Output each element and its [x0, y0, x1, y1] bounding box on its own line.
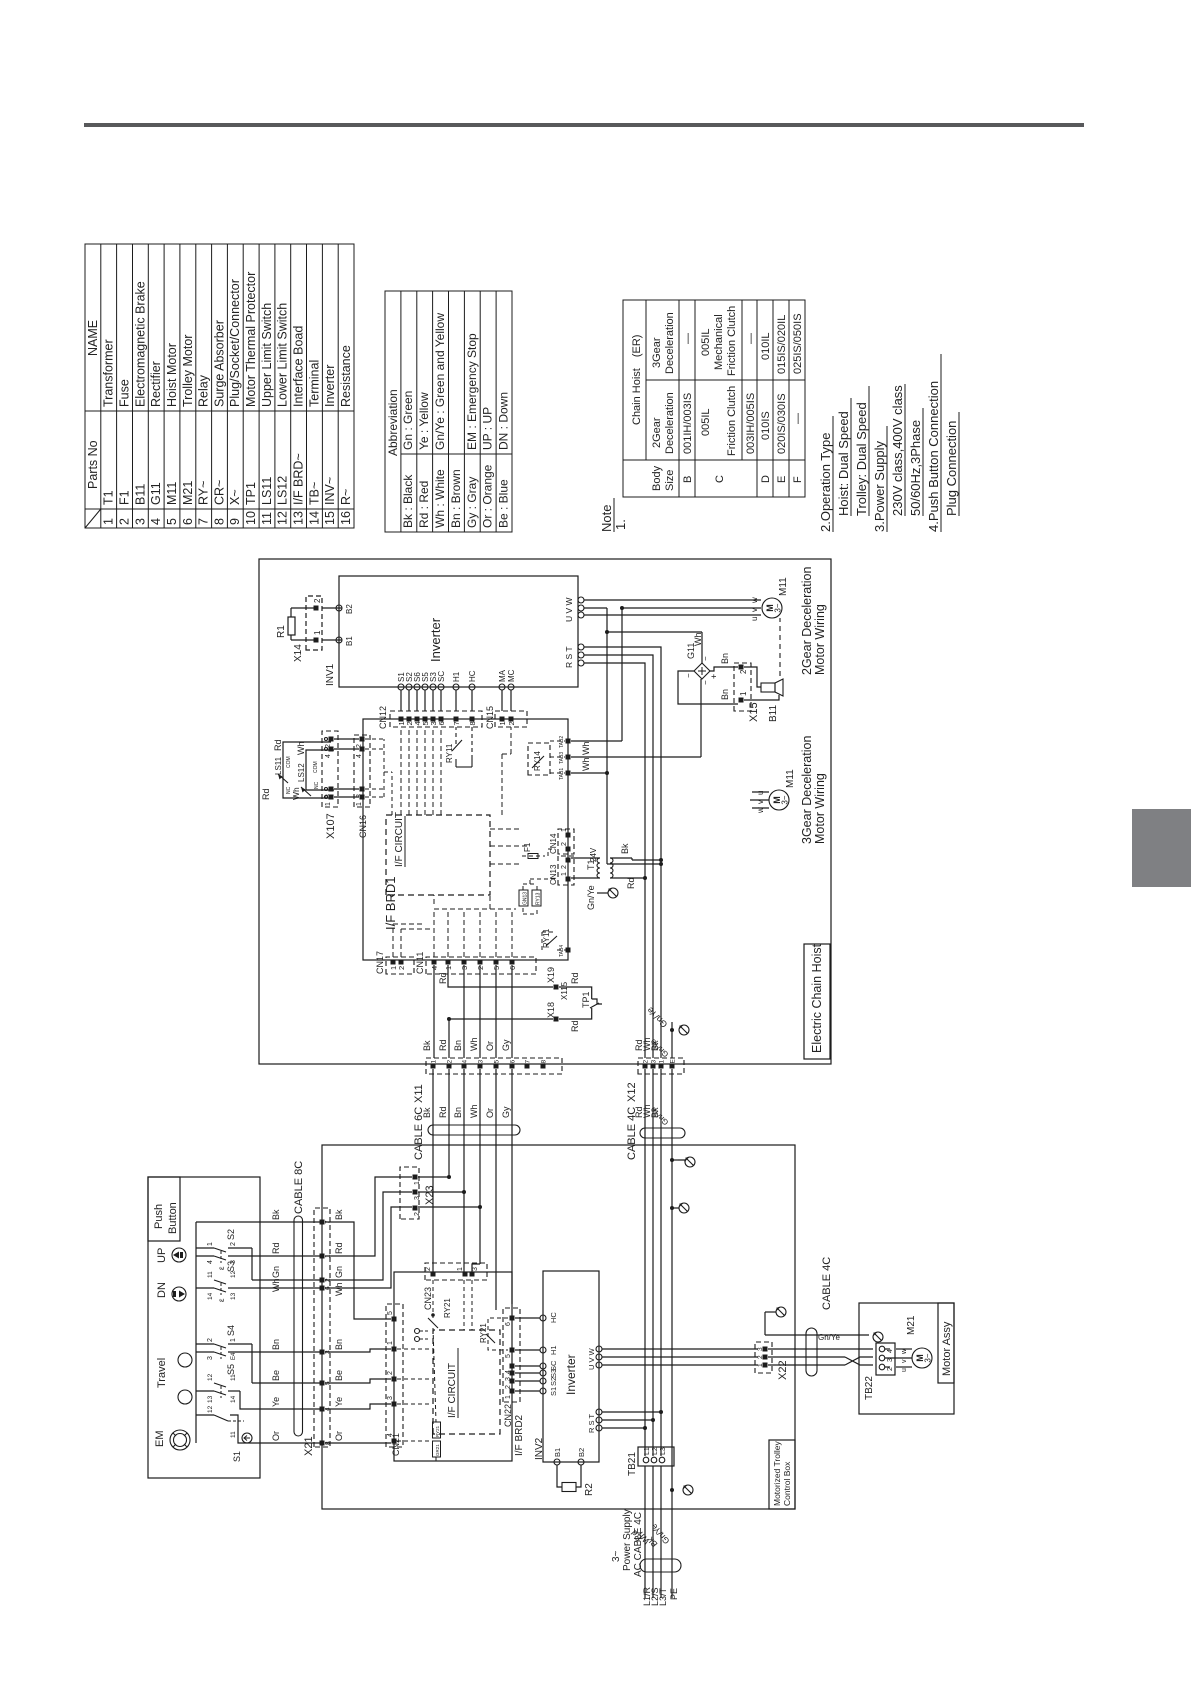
svg-text:8: 8 — [468, 721, 477, 725]
svg-text:X21: X21 — [303, 1436, 315, 1456]
connector X23 — [400, 1167, 419, 1219]
svg-text:4: 4 — [207, 1260, 214, 1264]
svg-text:GR21: GR21 — [435, 1444, 440, 1456]
INV1 pins U V W — [578, 612, 584, 618]
svg-text:Resistance: Resistance — [339, 345, 353, 407]
svg-text:6: 6 — [505, 1322, 512, 1326]
svg-text:TAB1: TAB1 — [559, 768, 565, 780]
cable 4C capsule hoist — [640, 1128, 685, 1138]
svg-text:I/F BRD1: I/F BRD1 — [383, 877, 398, 930]
power rows Rd Wh Bk to TB21 — [644, 1069, 646, 1456]
svg-text:Rd: Rd — [626, 877, 636, 889]
svg-text:Hoist Motor: Hoist Motor — [165, 343, 179, 407]
svg-text:U V W: U V W — [564, 597, 574, 622]
svg-text:E: E — [670, 1059, 677, 1064]
svg-text:Friction Clutch: Friction Clutch — [726, 386, 738, 456]
svg-text:16: 16 — [339, 511, 353, 525]
svg-text:14: 14 — [230, 1395, 237, 1403]
hoist label box — [804, 944, 830, 1059]
svg-text:Electromagnetic Brake: Electromagnetic Brake — [133, 281, 147, 407]
G11 wires — [701, 632, 703, 663]
svg-text:Wh: Wh — [271, 1279, 281, 1293]
relay contact RY11 — [455, 727, 457, 744]
svg-text:2.Operation Type: 2.Operation Type — [818, 433, 833, 533]
svg-text:TB~: TB~ — [307, 482, 321, 505]
svg-text:3: 3 — [414, 1196, 421, 1200]
svg-text:Be: Be — [271, 1370, 281, 1381]
X15 connector — [734, 663, 751, 711]
svg-text:TP1: TP1 — [244, 482, 258, 505]
svg-text:RY21: RY21 — [443, 1298, 452, 1318]
connector X11 — [426, 1058, 562, 1074]
svg-text:1: 1 — [431, 1060, 438, 1064]
TAB pins on BRD1 — [566, 771, 571, 776]
svg-text:14: 14 — [307, 511, 321, 525]
cable 8C capsule — [294, 1216, 303, 1436]
svg-text:3: 3 — [133, 518, 147, 525]
X23 wires down to rows — [418, 1176, 449, 1178]
wires CN11 to X11 — [433, 965, 435, 1058]
svg-text:Or: Or — [485, 1041, 495, 1051]
header rule — [84, 123, 1084, 127]
notes — [599, 354, 959, 532]
svg-text:M21: M21 — [181, 481, 195, 505]
wires CN12 to INV1 — [400, 690, 402, 711]
svg-text:M21: M21 — [906, 1315, 917, 1335]
svg-text:S1: S1 — [549, 1387, 558, 1396]
svg-text:Inverter: Inverter — [564, 1354, 578, 1395]
svg-text:Lower Limit Switch: Lower Limit Switch — [276, 303, 290, 407]
svg-text:F1: F1 — [523, 842, 532, 852]
brake dashed link — [779, 618, 781, 676]
svg-text:1.: 1. — [613, 519, 628, 530]
svg-text:1: 1 — [387, 1341, 394, 1345]
svg-text:12: 12 — [207, 1373, 214, 1381]
svg-text:SC: SC — [549, 1360, 558, 1371]
svg-text:I/F BRD~: I/F BRD~ — [292, 453, 306, 505]
gn/ye to motor assy — [765, 1334, 869, 1336]
I/F BRD2 board — [394, 1272, 512, 1461]
push button box — [148, 1177, 260, 1478]
svg-text:3~: 3~ — [774, 603, 783, 612]
svg-text:8: 8 — [541, 1060, 548, 1064]
switch S4 — [196, 1343, 214, 1345]
svg-text:001IH/003IS: 001IH/003IS — [682, 393, 694, 454]
svg-text:Inverter: Inverter — [428, 617, 443, 662]
wires R S T to X12 — [584, 663, 645, 1058]
svg-text:Gn/Ye : Green and Yellow: Gn/Ye : Green and Yellow — [433, 313, 447, 450]
svg-text:B2: B2 — [345, 604, 354, 614]
svg-text:F: F — [792, 476, 804, 483]
svg-text:Rd: Rd — [271, 1242, 281, 1254]
svg-text:1: 1 — [102, 518, 116, 525]
svg-text:3Gear: 3Gear — [651, 337, 663, 368]
svg-text:2: 2 — [118, 518, 132, 525]
svg-text:−: − — [701, 680, 710, 685]
svg-text:2Gear: 2Gear — [651, 417, 663, 448]
connector X14 — [306, 596, 322, 650]
svg-text:Rd : Red: Rd : Red — [417, 481, 431, 528]
svg-text:R S T: R S T — [564, 646, 574, 668]
svg-text:5: 5 — [505, 1354, 512, 1358]
svg-text:X12: X12 — [626, 1082, 638, 1102]
svg-text:2: 2 — [447, 1060, 454, 1064]
svg-text:DN: DN — [156, 1282, 168, 1298]
svg-text:NAME: NAME — [86, 320, 100, 356]
svg-text:Bn: Bn — [720, 653, 730, 664]
svg-text:8: 8 — [212, 518, 226, 525]
TAB columns down — [571, 740, 622, 742]
limit switch LS12 — [306, 750, 334, 790]
svg-text:M11: M11 — [165, 482, 179, 505]
svg-text:Bk: Bk — [422, 1040, 432, 1051]
switch S5 — [252, 1382, 322, 1384]
svg-text:005IL: 005IL — [700, 328, 712, 356]
svg-text:Trolley: Dual Speed: Trolley: Dual Speed — [854, 402, 869, 516]
svg-text:R S T: R S T — [587, 1414, 596, 1433]
svg-text:H1: H1 — [452, 671, 461, 682]
svg-text:B: B — [682, 476, 694, 483]
svg-text:Motor Wiring: Motor Wiring — [813, 773, 827, 844]
connector CN15 — [495, 711, 527, 727]
svg-text:RY11: RY11 — [445, 743, 454, 763]
svg-text:T1: T1 — [102, 490, 116, 505]
terminal TB22 — [876, 1343, 895, 1375]
svg-text:5: 5 — [494, 1060, 501, 1064]
svg-text:S1: S1 — [232, 1451, 242, 1462]
svg-text:1: 1 — [561, 828, 568, 832]
svg-text:3~: 3~ — [781, 795, 790, 804]
svg-text:RY~: RY~ — [197, 481, 211, 505]
svg-text:2: 2 — [757, 1355, 764, 1359]
svg-text:Motor Wiring: Motor Wiring — [813, 604, 827, 675]
svg-text:M11: M11 — [778, 577, 789, 596]
svg-text:Fuse: Fuse — [118, 379, 132, 407]
svg-text:Bn: Bn — [271, 1339, 281, 1350]
svg-text:LS12: LS12 — [276, 476, 290, 505]
cable 6C capsule — [428, 1125, 520, 1135]
svg-text:7: 7 — [525, 1060, 532, 1064]
svg-text:3: 3 — [472, 1267, 479, 1271]
svg-text:Bn: Bn — [334, 1339, 344, 1350]
connector X22 — [755, 1342, 772, 1373]
INV2 pins B1 B2 — [554, 1459, 560, 1465]
push button label box — [148, 1177, 180, 1241]
svg-text:MA: MA — [498, 669, 507, 682]
svg-text:015IS/020IL: 015IS/020IL — [776, 315, 788, 374]
svg-text:TP1: TP1 — [581, 991, 591, 1008]
svg-text:Bn: Bn — [453, 1107, 463, 1118]
cable 6C wires — [432, 1069, 434, 1274]
svg-text:Wh: Wh — [469, 1038, 479, 1052]
svg-text:3: 3 — [478, 1060, 485, 1064]
motor assy label box — [938, 1303, 954, 1383]
connector CN23 — [425, 1263, 487, 1280]
svg-text:Hoist: Dual Speed: Hoist: Dual Speed — [836, 411, 851, 516]
svg-text:1: 1 — [757, 1363, 764, 1367]
svg-text:Rd: Rd — [261, 788, 271, 800]
svg-text:LS11: LS11 — [274, 756, 283, 775]
svg-text:RY14: RY14 — [533, 751, 542, 771]
dashed internal wiring I/F BRD1 — [392, 924, 394, 957]
svg-text:TB21: TB21 — [627, 1452, 638, 1476]
svg-text:S5: S5 — [226, 1364, 236, 1375]
svg-text:RY21: RY21 — [435, 1425, 440, 1437]
svg-text:L1: L1 — [644, 1447, 651, 1455]
svg-text:B11: B11 — [133, 484, 147, 505]
contacts O O — [415, 1337, 420, 1342]
svg-text:Ye: Ye — [334, 1397, 344, 1407]
svg-text:Control Box: Control Box — [782, 1461, 792, 1506]
connector CN12 — [390, 711, 482, 727]
svg-text:2: 2 — [507, 721, 516, 725]
svg-text:X15: X15 — [748, 702, 760, 722]
resistor R2 — [557, 1465, 562, 1487]
svg-text:010IL: 010IL — [760, 332, 772, 360]
svg-text:v: v — [750, 608, 759, 612]
svg-text:5: 5 — [387, 1311, 394, 1315]
svg-text:1: 1 — [356, 802, 363, 806]
svg-text:4.Push Button Connection: 4.Push Button Connection — [926, 381, 941, 532]
rectifier G11 — [694, 663, 710, 679]
svg-text:U V W: U V W — [587, 1347, 596, 1370]
svg-text:COM: COM — [286, 756, 292, 768]
svg-text:2: 2 — [397, 966, 406, 970]
inverter INV2 — [543, 1271, 599, 1462]
svg-text:Parts No: Parts No — [86, 440, 100, 489]
svg-text:CN16: CN16 — [358, 815, 368, 838]
svg-text:INV2: INV2 — [534, 1437, 545, 1460]
svg-text:4: 4 — [149, 518, 163, 525]
thermal protector TP1 — [559, 987, 592, 999]
dashed links CN21 to circuit — [397, 1440, 430, 1442]
svg-text:Deceleration: Deceleration — [664, 392, 676, 454]
side tab — [1132, 809, 1191, 887]
fuse F1 — [522, 855, 545, 857]
svg-text:Be: Be — [334, 1370, 344, 1381]
svg-text:Trolley Motor: Trolley Motor — [181, 335, 195, 407]
svg-text:v: v — [901, 1359, 908, 1363]
svg-text:3: 3 — [207, 1356, 214, 1360]
switch S2 — [196, 1247, 214, 1249]
svg-text:2: 2 — [207, 1338, 214, 1342]
svg-text:CN14: CN14 — [549, 833, 558, 854]
svg-text:RY13: RY13 — [536, 892, 542, 905]
svg-text:005IL: 005IL — [700, 408, 712, 436]
svg-text:1: 1 — [207, 1242, 214, 1246]
svg-text:1: 1 — [561, 872, 568, 876]
svg-text:X11: X11 — [413, 1084, 425, 1103]
I/F CIRCUIT dashed box (hoist) — [386, 815, 490, 895]
svg-text:Gy: Gy — [501, 1106, 511, 1118]
svg-text:Or: Or — [485, 1108, 495, 1118]
INV1 pins B1 B2 — [336, 637, 342, 643]
svg-text:50/60Hz,3Phase: 50/60Hz,3Phase — [908, 420, 923, 516]
svg-text:Push: Push — [153, 1204, 165, 1229]
svg-text:B11: B11 — [768, 705, 779, 722]
svg-text:Rd: Rd — [438, 1106, 448, 1118]
connector X12 — [638, 1058, 684, 1074]
svg-text:—: — — [745, 333, 757, 344]
svg-text:LS12: LS12 — [297, 763, 306, 782]
svg-text:X115: X115 — [560, 981, 569, 1000]
svg-text:u: u — [756, 791, 765, 795]
svg-text:12: 12 — [207, 1405, 214, 1413]
svg-text:Mechanical: Mechanical — [713, 314, 725, 370]
wires U V W to 2gear motor — [584, 614, 761, 616]
svg-text:1: 1 — [505, 1395, 512, 1399]
svg-text:4: 4 — [356, 754, 363, 758]
row 622 (TAB2 link) — [621, 608, 623, 741]
svg-text:EM : Emergency Stop: EM : Emergency Stop — [465, 333, 479, 450]
svg-text:4: 4 — [325, 754, 332, 758]
relay contact RY21 b — [488, 1318, 508, 1350]
svg-text:F1: F1 — [118, 490, 132, 505]
svg-text:R~: R~ — [339, 489, 353, 505]
bus wire — [195, 1222, 197, 1443]
svg-text:Body: Body — [651, 465, 663, 491]
svg-text:Wh : White: Wh : White — [433, 469, 447, 528]
svg-text:L2: L2 — [652, 1447, 659, 1455]
G11 + to X15 pin2 — [710, 667, 738, 671]
svg-text:10: 10 — [244, 511, 258, 525]
wires INV2 UVW to X22 — [602, 1364, 758, 1366]
wires X21 to CN21/X23 — [325, 1442, 391, 1444]
svg-text:CR~: CR~ — [212, 480, 226, 505]
2gear motor M11 — [762, 598, 782, 618]
svg-text:Bn: Bn — [453, 1040, 463, 1051]
svg-text:3~: 3~ — [611, 1550, 622, 1562]
svg-text:Wh: Wh — [581, 758, 591, 772]
parts table — [85, 244, 354, 528]
svg-text:3: 3 — [387, 1396, 394, 1400]
svg-text:1: 1 — [457, 1267, 464, 1271]
svg-text:Bk: Bk — [422, 1107, 432, 1118]
svg-text:Gn: Gn — [334, 1266, 344, 1278]
connector CN21 — [386, 1304, 403, 1447]
svg-text:Wh: Wh — [296, 742, 306, 756]
svg-text:X22: X22 — [777, 1360, 789, 1380]
connector X21 — [314, 1208, 330, 1447]
svg-text:Gn/Ye: Gn/Ye — [645, 1005, 670, 1030]
svg-text:2: 2 — [414, 1212, 421, 1216]
svg-text:Inverter: Inverter — [323, 365, 337, 407]
svg-text:Plug/Socket/Connector: Plug/Socket/Connector — [228, 279, 242, 407]
svg-text:I/F CIRCUIT: I/F CIRCUIT — [394, 812, 405, 867]
motor assy box — [859, 1303, 954, 1414]
connector CN13 — [558, 856, 574, 885]
svg-text:Note: Note — [599, 505, 614, 532]
I/F BRD1 board — [363, 719, 568, 960]
svg-text:Gy : Gray: Gy : Gray — [465, 477, 479, 528]
svg-text:I/F BRD2: I/F BRD2 — [514, 1414, 525, 1456]
ground in motor assy — [873, 1332, 883, 1342]
svg-text:003IH/005IS: 003IH/005IS — [745, 393, 757, 454]
svg-text:I/F CIRCUIT: I/F CIRCUIT — [447, 1363, 458, 1418]
svg-text:Bk: Bk — [334, 1209, 344, 1220]
svg-text:CN13: CN13 — [549, 864, 558, 885]
svg-text:1: 1 — [659, 1060, 666, 1064]
svg-text:4: 4 — [462, 1060, 469, 1064]
svg-text:Rd: Rd — [438, 972, 448, 984]
svg-text:2: 2 — [561, 865, 568, 869]
power cable capsule — [640, 1559, 681, 1572]
svg-text:PE: PE — [669, 1588, 679, 1600]
svg-text:G11: G11 — [149, 482, 163, 505]
svg-text:4: 4 — [387, 1433, 394, 1437]
svg-text:CN12: CN12 — [378, 706, 388, 729]
I/F CIRCUIT dashed box (trolley) — [433, 1330, 500, 1434]
svg-text:Deceleration: Deceleration — [664, 312, 676, 374]
svg-text:3~: 3~ — [924, 1353, 933, 1362]
svg-text:TAB4: TAB4 — [559, 945, 565, 957]
svg-text:2: 2 — [356, 744, 363, 748]
terminal TB21 — [638, 1447, 674, 1466]
svg-text:Wh: Wh — [291, 787, 301, 800]
svg-text:020IS/030IS: 020IS/030IS — [776, 393, 788, 454]
svg-text:ε: ε — [217, 1266, 226, 1270]
svg-text:INV1: INV1 — [325, 663, 336, 686]
svg-text:2: 2 — [505, 1385, 512, 1389]
svg-text:B2: B2 — [577, 1448, 586, 1457]
svg-text:S4: S4 — [226, 1325, 236, 1336]
svg-text:X19: X19 — [546, 967, 556, 983]
svg-text:X18: X18 — [546, 1002, 556, 1018]
col 820 join to Bk row — [607, 863, 661, 865]
svg-text:MC: MC — [507, 669, 516, 682]
wire CN11-1 to X19 — [448, 965, 553, 987]
switch S3 — [252, 1279, 322, 1281]
svg-text:Rd: Rd — [438, 1039, 448, 1051]
cable 4C capsule motor — [806, 1328, 817, 1376]
svg-text:Bn : Brown: Bn : Brown — [449, 469, 463, 528]
svg-text:Gn/Ye: Gn/Ye — [818, 1333, 840, 1342]
svg-text:—: — — [682, 333, 694, 344]
svg-text:2: 2 — [643, 1060, 650, 1064]
svg-text:INV~: INV~ — [323, 477, 337, 505]
svg-text:2: 2 — [739, 669, 748, 674]
relay RY14 — [528, 743, 550, 775]
wires X22 through cable — [768, 1364, 845, 1366]
wire bk drop — [196, 1221, 322, 1223]
limit switch LS11 — [283, 742, 331, 798]
relay boxes GN13 RY13 — [519, 890, 528, 906]
svg-text:TAB3: TAB3 — [559, 752, 565, 764]
svg-text:D: D — [760, 475, 772, 483]
svg-text:Bn: Bn — [720, 689, 730, 700]
jumper S4-S5 — [251, 1344, 253, 1383]
motor M21 — [912, 1348, 932, 1368]
svg-text:6: 6 — [181, 518, 195, 525]
svg-text:Rd: Rd — [570, 1020, 580, 1032]
svg-text:13: 13 — [230, 1292, 237, 1300]
svg-text:1: 1 — [230, 1338, 237, 1342]
svg-text:7: 7 — [197, 518, 211, 525]
svg-text:M11: M11 — [785, 769, 796, 788]
svg-text:X~: X~ — [228, 489, 242, 505]
svg-text:Upper Limit Switch: Upper Limit Switch — [260, 303, 274, 407]
ground stubs trolley — [672, 1207, 679, 1209]
connector CN14 — [558, 829, 574, 854]
svg-text:2: 2 — [230, 1242, 237, 1246]
svg-text:u: u — [901, 1368, 908, 1372]
relay boxes GR21 RY21 — [433, 1441, 441, 1457]
svg-text:HC: HC — [468, 670, 477, 682]
svg-text:C: C — [714, 475, 726, 483]
svg-text:Bk: Bk — [271, 1209, 281, 1220]
ground near T1 — [596, 878, 598, 893]
svg-text:3: 3 — [651, 1060, 658, 1064]
